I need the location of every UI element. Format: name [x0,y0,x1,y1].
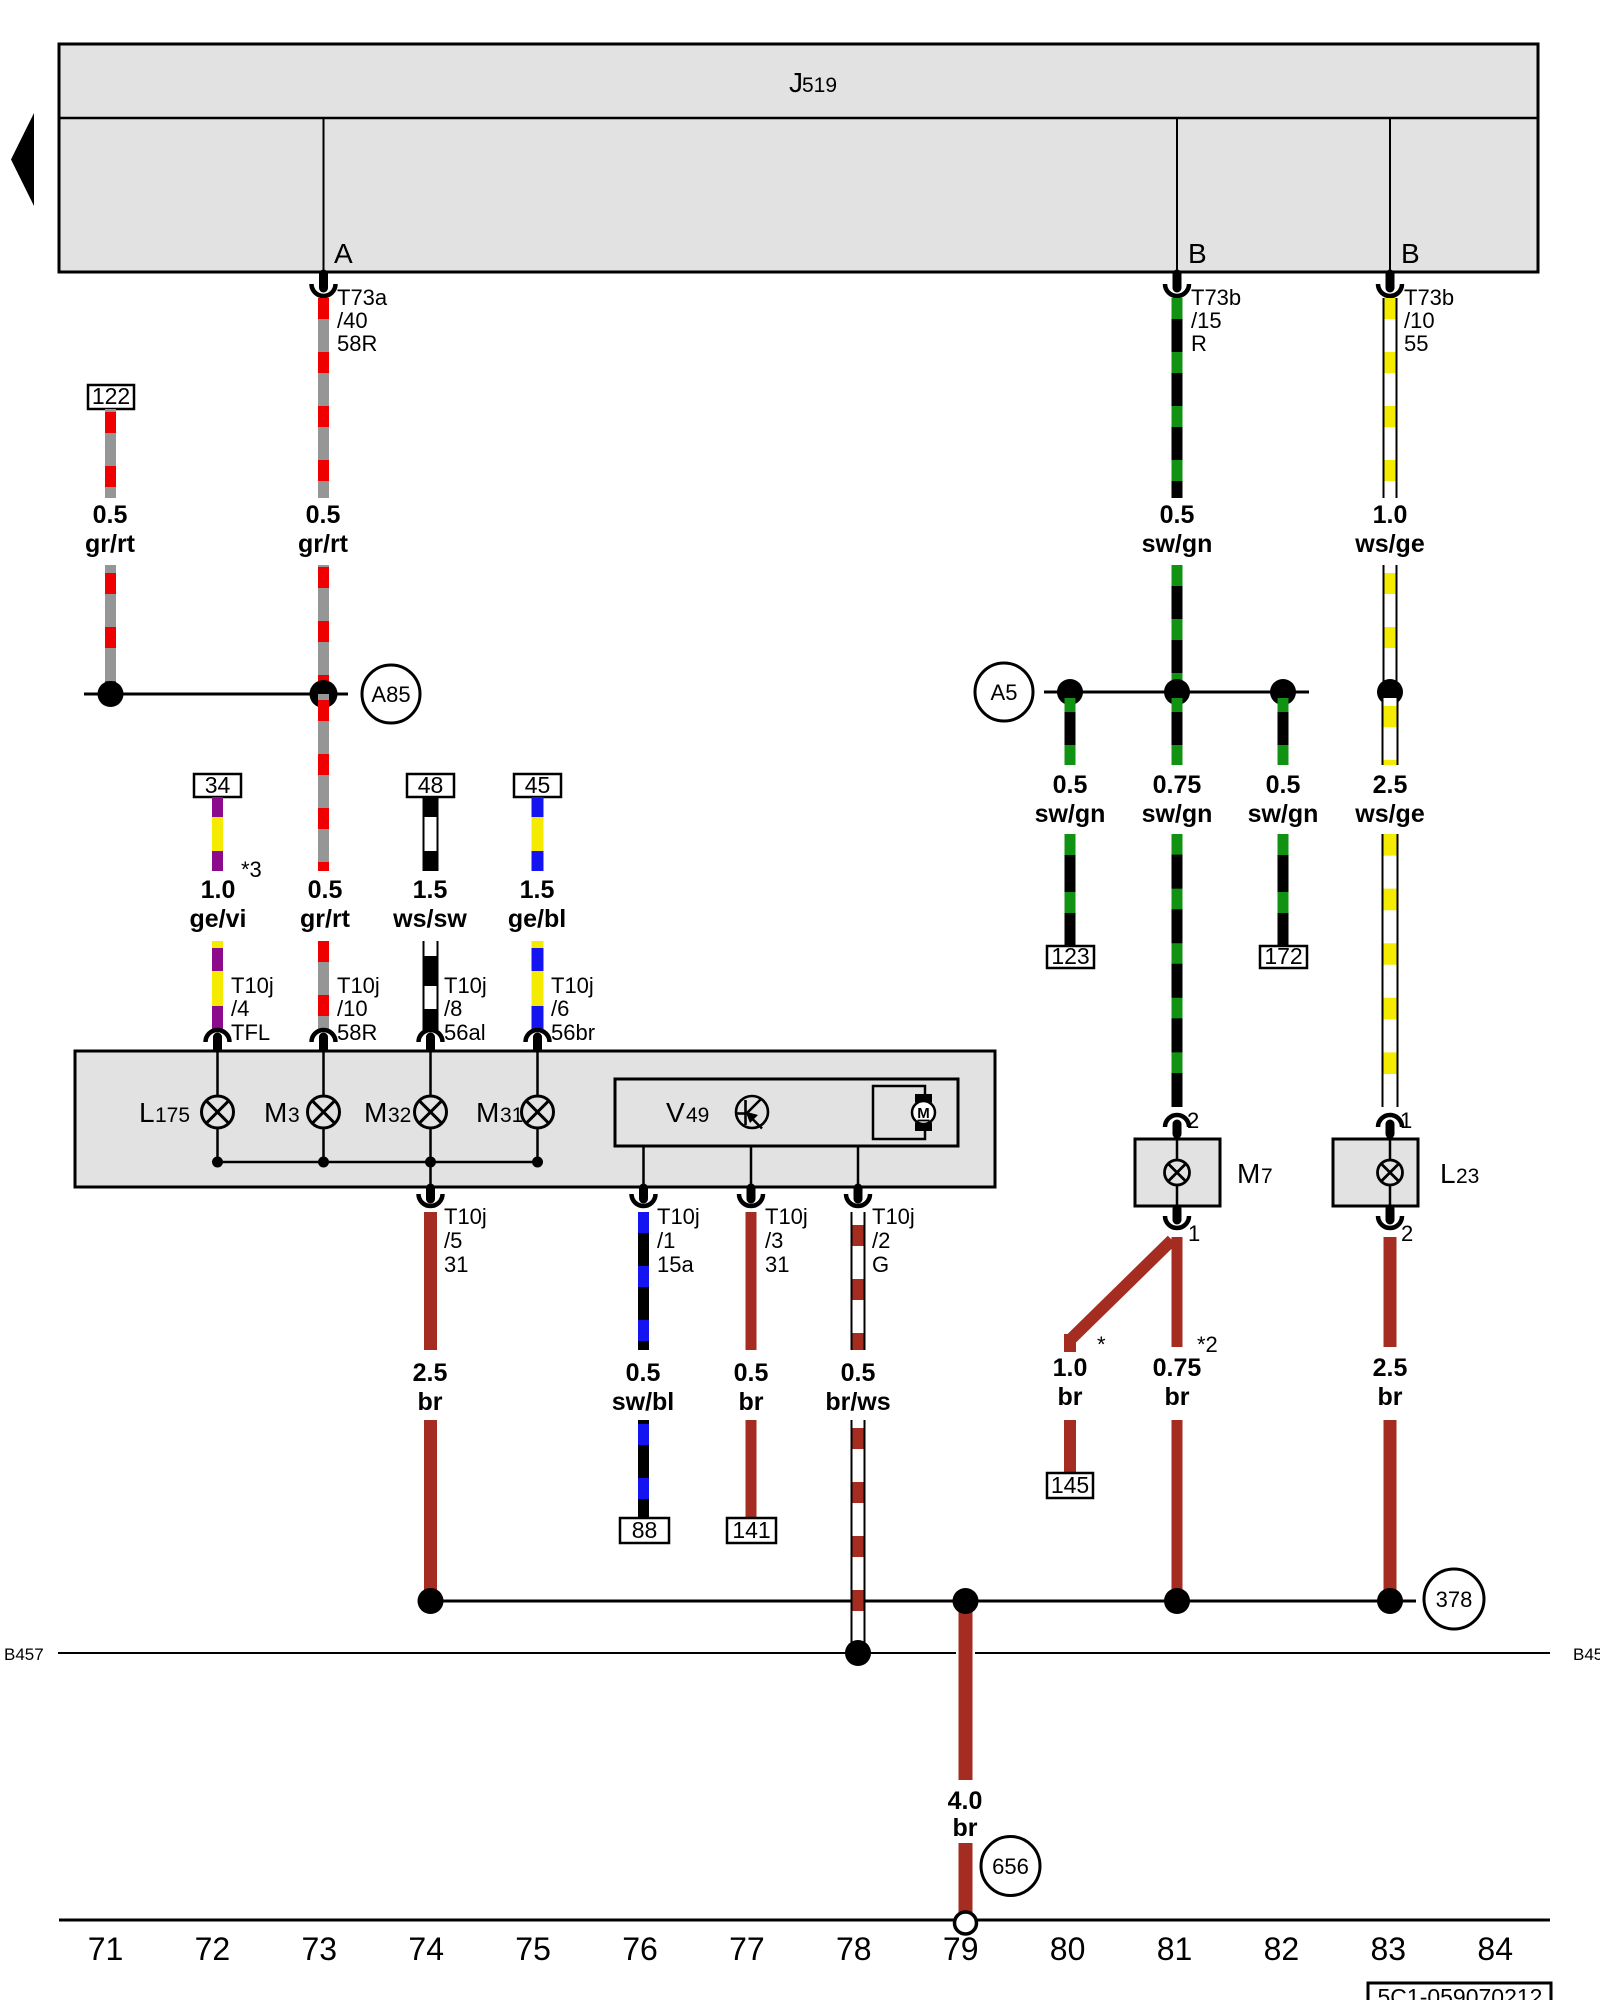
box terminal 88 [620,1517,669,1543]
svg-text:0.5: 0.5 [734,1359,769,1387]
wire sw/gn right branch to box 172 [1278,834,1289,946]
svg-text:0.75: 0.75 [1153,1354,1202,1382]
svg-text:55: 55 [1404,331,1428,356]
connector T73a/40 at J519 pin A [312,274,336,296]
svg-text:378: 378 [1436,1587,1473,1612]
svg-text:/5: /5 [444,1228,462,1253]
wire gr/rt lower stub into wiper motor box [318,941,329,1030]
label 2.5 ws/ge [1354,771,1425,828]
connector pin 1 into L23 [1378,1115,1402,1134]
svg-text:0.5: 0.5 [306,501,341,529]
svg-text:ws/ge: ws/ge [1354,800,1425,828]
svg-text:br: br [1058,1383,1083,1411]
svg-text:/8: /8 [444,996,462,1021]
svg-text:2.5: 2.5 [1373,771,1408,799]
svg-text:gr/rt: gr/rt [298,530,349,558]
svg-text:0.5: 0.5 [841,1359,876,1387]
connector T10j/4 into box [206,1030,230,1050]
svg-text:ws/sw: ws/sw [392,905,467,933]
wire br 2.5 lower segment to ground bus [1384,1420,1397,1601]
internal ground bus of lamps [218,1128,538,1162]
svg-text:M: M [1237,1158,1260,1189]
wire ge/vi stub below 34 [212,797,223,871]
ground symbol circle 656 [981,1837,1040,1896]
svg-text:0.5: 0.5 [93,501,128,529]
wire br 4.0 upper segment [956,1601,975,1780]
svg-text:L: L [139,1097,155,1128]
svg-text:L: L [1440,1158,1456,1189]
wire ge/vi lower stub into wiper motor box [212,941,223,1029]
svg-text:*: * [1097,1332,1106,1357]
wire br/ws upper segment from T10j/2 [851,1212,866,1350]
svg-text:T10j: T10j [231,973,274,998]
connection point circle A5 [975,663,1033,721]
label 0.75 sw/gn [1142,771,1213,828]
wire ws/sw stub below 48 [423,797,439,871]
svg-text:2.5: 2.5 [413,1359,448,1387]
label T10j /6 56br [551,973,595,1045]
svg-text:3: 3 [288,1104,300,1127]
svg-text:B457: B457 [4,1645,44,1664]
svg-text:R: R [1191,331,1207,356]
svg-text:32: 32 [388,1104,411,1127]
svg-text:gr/rt: gr/rt [300,905,351,933]
label 0.5 sw/gn [1248,771,1319,828]
wire sw/gn right branch stub below junction [1278,698,1289,765]
svg-text:/40: /40 [337,308,368,333]
svg-text:56br: 56br [551,1020,595,1045]
svg-text:T10j: T10j [444,1204,487,1229]
svg-text:31: 31 [444,1252,468,1277]
junction node on ws/ge wire [1377,679,1403,705]
wire sw/gn from T73b/15, upper segment [1172,298,1183,498]
svg-text:0.5: 0.5 [1266,771,1301,799]
svg-text:A85: A85 [371,682,410,707]
svg-text:58R: 58R [337,1020,377,1045]
svg-text:4.0: 4.0 [948,1787,983,1815]
svg-text:0.5: 0.5 [308,876,343,904]
svg-text:ge/bl: ge/bl [508,905,566,933]
wire sw/gn 0.75 long segment to M7 [1172,834,1183,1107]
continuation arrow (left margin) [11,113,34,206]
svg-text:72: 72 [195,1931,231,1967]
box terminal 145 [1047,1472,1093,1498]
plus connection line B457 [58,1652,1550,1654]
svg-text:122: 122 [92,383,130,409]
svg-text:75: 75 [515,1931,551,1967]
connector T73b/15 at J519 pin B [1165,274,1189,296]
label M31 [476,1097,523,1128]
svg-text:M: M [364,1097,387,1128]
wire gr/rt from 122, upper segment [105,409,116,498]
svg-text:sw/gn: sw/gn [1248,800,1319,828]
svg-text:48: 48 [418,772,444,798]
box terminal 48 [407,772,454,798]
svg-text:A5: A5 [991,680,1018,705]
svg-text:sw/gn: sw/gn [1142,530,1213,558]
ground connection circle 378 [1424,1569,1484,1629]
svg-text:/15: /15 [1191,308,1222,333]
svg-text:T10j: T10j [872,1204,915,1229]
wire gr/rt from 122, lower segment to junction [105,565,116,690]
svg-text:0.75: 0.75 [1153,771,1202,799]
label T10j /2 G [872,1204,915,1277]
svg-text:34: 34 [205,772,231,798]
internal wire M7 [1176,1133,1179,1211]
box terminal 123 [1047,943,1094,969]
svg-text:/6: /6 [551,996,569,1021]
svg-text:23: 23 [1456,1165,1479,1188]
windscreen wiper motor component box (L175 M3 M32 M31 V49) [75,1051,995,1187]
wire ws/ge 2.5 long segment to L23 [1382,834,1399,1107]
connector T10j/6 into box [526,1030,550,1050]
label 0.5 gr/rt [300,876,351,933]
wire gr/rt from T73a/40, upper segment [318,298,329,498]
junction node at 122 wire [98,681,124,707]
svg-text:T10j: T10j [551,973,594,998]
svg-text:sw/gn: sw/gn [1035,800,1106,828]
label 1.0 br [1053,1354,1088,1411]
svg-text:80: 80 [1050,1931,1086,1967]
svg-text:M: M [917,1105,930,1122]
svg-text:7: 7 [1261,1165,1273,1188]
svg-text:T73b: T73b [1191,285,1241,310]
svg-text:5C1-059070212: 5C1-059070212 [1378,1984,1543,2000]
wiper motor electronics V49 sub-box [615,1079,958,1146]
label T10j /3 31 [765,1204,808,1277]
label T10j /8 56al [444,973,487,1045]
svg-text:TFL: TFL [231,1020,270,1045]
wire ge/bl stub below 45 [532,797,544,871]
internal wire V49 to pin T10j/3 [750,1146,753,1190]
svg-text:1.0: 1.0 [201,876,236,904]
svg-text:175: 175 [155,1104,190,1127]
connector pin 2 into M7 [1165,1115,1189,1134]
internal wire V49 to pin T10j/1 [642,1146,645,1190]
internal bus node dots [212,1157,543,1168]
connector pin 1 below M7 [1165,1209,1189,1228]
junction node center [1164,679,1190,705]
svg-text:2.5: 2.5 [1373,1354,1408,1382]
label 1.5 ge/bl [508,876,566,933]
svg-text:/4: /4 [231,996,249,1021]
svg-text:58R: 58R [337,331,377,356]
label V49 [666,1097,709,1128]
svg-text:78: 78 [836,1931,872,1967]
control unit J519 onboard supply control unit box [59,44,1538,272]
wire br 0.75 upper segment below M7 [1172,1237,1183,1347]
svg-text:T73b: T73b [1404,285,1454,310]
label T73b /10 55 [1404,285,1454,356]
svg-text:79: 79 [943,1931,979,1967]
svg-text:141: 141 [732,1517,770,1543]
wire br 0.5 upper segment from T10j/3 [746,1212,757,1350]
svg-text:br: br [1165,1383,1190,1411]
svg-text:519: 519 [802,74,837,97]
wire ws/ge middle segment to junction [1383,565,1398,692]
label M3 [264,1097,300,1128]
svg-text:77: 77 [729,1931,765,1967]
svg-text:49: 49 [686,1104,709,1127]
svg-text:G: G [872,1252,889,1277]
box terminal 34 [194,772,241,798]
internal wire V49 to pin T10j/2 [857,1146,860,1190]
junction node br 2.5 right [1377,1588,1403,1614]
connection point circle A85 [362,665,420,723]
svg-text:82: 82 [1264,1931,1300,1967]
wire ws/ge 2.5 stub below junction [1382,698,1399,765]
svg-text:br: br [953,1814,978,1842]
label J519 [789,67,837,98]
svg-text:74: 74 [408,1931,444,1967]
svg-text:sw/gn: sw/gn [1142,800,1213,828]
label T73b /15 R [1191,285,1241,356]
wire br 2.5 lower segment to ground bus [424,1420,437,1601]
junction node br 2.5 [418,1588,444,1614]
box terminal 122 [88,383,134,409]
label M7 [1237,1158,1273,1189]
motor mount frame [873,1086,925,1139]
wire pin to lamp M31 [536,1048,539,1096]
svg-text:83: 83 [1371,1931,1407,1967]
svg-text:172: 172 [1264,943,1302,969]
label L175 [139,1097,190,1128]
wire br 1.0 stub to box 145 [1064,1420,1076,1474]
lamp M3 [308,1096,340,1128]
label 1.0 ws/ge [1354,501,1425,558]
svg-text:76: 76 [622,1931,658,1967]
svg-text:J: J [789,67,803,98]
wire ws/sw lower stub into wiper motor box [423,941,439,1030]
junction node br 0.75 [1164,1588,1190,1614]
svg-text:B457: B457 [1573,1645,1600,1664]
connector T73b/10 at J519 pin B [1378,274,1402,296]
svg-text:ge/vi: ge/vi [190,905,247,933]
label 2.5 br [1373,1354,1408,1411]
motor M symbol [912,1094,935,1131]
wire sw/gn middle segment to junction A5 [1172,565,1183,692]
svg-text:sw/bl: sw/bl [612,1388,675,1416]
svg-text:1.0: 1.0 [1053,1354,1088,1382]
wire sw/gn left branch to box 123 [1065,834,1076,946]
box terminal 45 [514,772,561,798]
ground bus wire to 378 [431,1600,1417,1603]
svg-text:2: 2 [1401,1221,1413,1246]
svg-text:1: 1 [1188,1221,1200,1246]
svg-text:0.5: 0.5 [1053,771,1088,799]
wire br 1.0 diagonal branch [1070,1240,1172,1352]
svg-text:T10j: T10j [765,1204,808,1229]
svg-text:br: br [418,1388,443,1416]
connector T10j/1 below box [632,1188,656,1206]
svg-text:br/ws: br/ws [825,1388,890,1416]
wire br 0.75 lower segment to ground bus [1172,1420,1183,1601]
svg-text:/10: /10 [1404,308,1435,333]
svg-text:T10j: T10j [657,1204,700,1229]
svg-text:2: 2 [1187,1108,1199,1133]
connector pin 2 below L23 [1378,1209,1402,1228]
svg-text:gr/rt: gr/rt [85,530,136,558]
label 4.0 br [948,1787,983,1842]
wire sw/gn left branch stub below junction [1065,698,1076,765]
internal wire to pin T10j/5 [429,1162,432,1190]
wire ge/bl lower stub into wiper motor box [532,941,544,1029]
wire inside J519 to pin A [323,118,325,272]
wire br 4.0 lower segment to ground point [959,1843,973,1913]
lamp M31 [522,1096,554,1128]
svg-text:B: B [1401,238,1420,269]
ground point open circle at track 79 [955,1912,977,1934]
label 0.5 br/ws [825,1359,890,1416]
svg-text:31: 31 [500,1104,523,1127]
electronics symbol (circle with arrow) V49 [736,1096,768,1129]
rear fog light bulb M7 box [1135,1139,1220,1206]
svg-text:A: A [334,238,353,269]
svg-text:T10j: T10j [444,973,487,998]
junction wire A85 horizontal [84,693,348,696]
svg-text:45: 45 [525,772,551,798]
wire gr/rt middle segment to junction A85 [318,565,329,694]
lamp symbol M7 [1165,1160,1190,1185]
wire gr/rt below junction A85 [318,694,329,871]
svg-text:88: 88 [632,1517,658,1543]
connector T10j/10 into box [312,1030,336,1050]
label T10j /10 58R [337,973,380,1045]
rear fog light L23 box [1333,1139,1418,1206]
diagram number box 5C1-059070212 [1368,1983,1551,2000]
label L23 [1440,1158,1479,1189]
lamp L175 [202,1096,234,1128]
junction node left branch [1057,679,1083,705]
svg-text:*3: *3 [241,857,262,882]
label 0.5 sw/gn [1035,771,1106,828]
svg-text:0.5: 0.5 [626,1359,661,1387]
svg-text:br: br [1378,1383,1403,1411]
internal wire L23 [1389,1133,1392,1211]
svg-text:73: 73 [302,1931,338,1967]
label 0.5 sw/bl [612,1359,675,1416]
svg-text:ws/ge: ws/ge [1354,530,1425,558]
svg-text:M: M [264,1097,287,1128]
svg-text:/2: /2 [872,1228,890,1253]
box terminal 141 [727,1517,776,1543]
svg-text:1.5: 1.5 [520,876,555,904]
svg-text:1: 1 [1400,1108,1412,1133]
svg-text:145: 145 [1051,1472,1089,1498]
wire pin to lamp M32 [429,1048,432,1096]
svg-text:656: 656 [992,1854,1029,1879]
wire sw/gn center stub below junction [1172,698,1183,765]
svg-text:0.5: 0.5 [1160,501,1195,529]
connector T10j/8 into box [419,1030,443,1050]
lamp symbol L23 [1378,1160,1403,1185]
svg-text:V: V [666,1097,685,1128]
label 0.5 gr/rt [85,501,136,558]
junction node br/ws on B457 [845,1640,871,1666]
svg-text:/1: /1 [657,1228,675,1253]
svg-text:15a: 15a [657,1252,694,1277]
junction wire A5 horizontal [1044,691,1309,694]
box terminal 172 [1260,943,1307,969]
label T10j /5 31 [444,1204,487,1277]
svg-text:84: 84 [1477,1931,1513,1967]
junction node right branch [1270,679,1296,705]
label T73a /40 58R [337,285,388,356]
svg-text:81: 81 [1157,1931,1193,1967]
svg-text:1.5: 1.5 [413,876,448,904]
wire br 0.5 lower segment to box 141 [746,1420,757,1518]
label 2.5 br [413,1359,448,1416]
connector T10j/3 below box [739,1188,763,1206]
label 0.5 gr/rt [298,501,349,558]
lamp M32 [415,1096,447,1128]
label M32 [364,1097,411,1128]
svg-text:/10: /10 [337,996,368,1021]
wire ws/ge from T73b/10, upper segment [1383,298,1398,498]
junction node at A wire [310,680,338,708]
wire inside J519 to pin B (T73b/10) [1389,118,1391,272]
label 0.5 sw/gn [1142,501,1213,558]
connector T10j/2 below box [846,1188,870,1206]
svg-text:M: M [476,1097,499,1128]
svg-text:br: br [739,1388,764,1416]
wire inside J519 to pin B (T73b/15) [1176,118,1178,272]
label 0.5 br [734,1359,769,1416]
svg-text:B: B [1188,238,1207,269]
track numbers 71-84 [88,1931,1513,1967]
svg-text:T73a: T73a [337,285,388,310]
svg-text:71: 71 [88,1931,124,1967]
wire sw/bl lower segment to box 88 [638,1420,649,1518]
svg-text:1.0: 1.0 [1373,501,1408,529]
label 1.5 ws/sw [392,876,467,933]
label 1.0 ge/vi [190,876,247,933]
label T10j /1 15a [657,1204,700,1277]
svg-text:31: 31 [765,1252,789,1277]
junction node br 4.0 [953,1588,979,1614]
svg-text:/3: /3 [765,1228,783,1253]
label 0.75 br [1153,1354,1202,1411]
connector T10j/5 below box [419,1188,443,1206]
wire pin to lamp L175 [216,1048,219,1096]
svg-text:T10j: T10j [337,973,380,998]
svg-text:123: 123 [1051,943,1089,969]
label T10j /4 TFL [231,973,274,1045]
wire sw/bl upper segment from T10j/1 [638,1212,649,1350]
wire br 2.5 upper segment from T10j/5 [424,1212,437,1350]
wire br 2.5 upper segment below L23 [1384,1237,1397,1347]
wire pin to lamp M3 [322,1048,325,1096]
current flow track line (bottom) [59,1919,1550,1922]
svg-text:56al: 56al [444,1020,486,1045]
wire br/ws lower segment to line B457 [851,1420,866,1653]
